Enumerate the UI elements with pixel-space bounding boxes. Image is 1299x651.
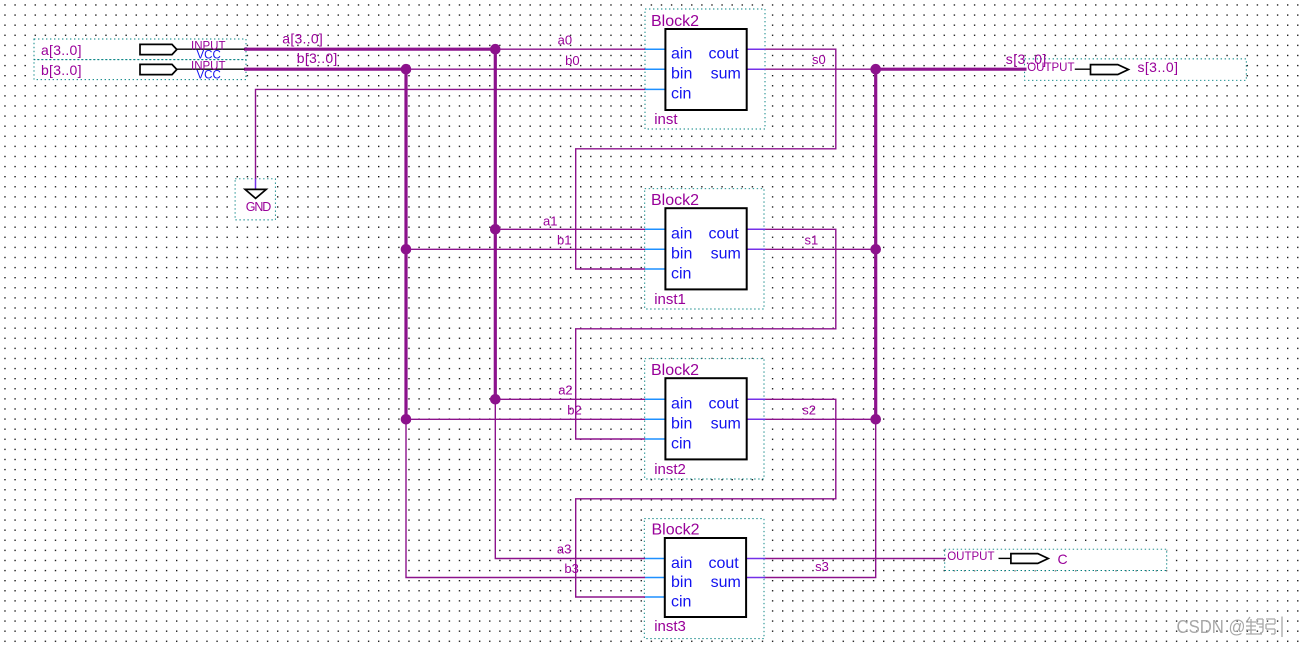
svg-text:ain: ain [671, 396, 692, 413]
svg-text:s0: s0 [812, 52, 826, 67]
svg-text:b2: b2 [567, 403, 581, 418]
svg-text:CSDN @: CSDN @ [1177, 617, 1246, 637]
svg-text:OUTPUT: OUTPUT [947, 551, 994, 563]
svg-text:b[3..0]: b[3..0] [41, 62, 82, 78]
svg-text:b3: b3 [564, 561, 578, 576]
svg-text:Block2: Block2 [651, 362, 699, 379]
svg-text:s1: s1 [805, 233, 819, 248]
svg-text:a3: a3 [557, 542, 571, 557]
svg-text:bin: bin [671, 416, 692, 433]
svg-text:cin: cin [671, 593, 691, 610]
svg-text:VCC: VCC [197, 70, 221, 82]
svg-text:Block2: Block2 [651, 192, 699, 209]
svg-text:cin: cin [671, 86, 691, 103]
svg-text:s2: s2 [802, 403, 816, 418]
svg-text:ain: ain [671, 226, 692, 243]
svg-text:Block2: Block2 [651, 13, 699, 30]
svg-text:a2: a2 [558, 383, 572, 398]
svg-text:cin: cin [671, 435, 691, 452]
svg-text:bin: bin [671, 66, 692, 83]
svg-text:Block2: Block2 [652, 521, 700, 538]
svg-text:bin: bin [671, 246, 692, 263]
svg-text:a[3..0]: a[3..0] [41, 42, 82, 58]
svg-text:inst1: inst1 [654, 291, 686, 308]
svg-text:ain: ain [671, 46, 692, 63]
svg-text:cin: cin [671, 265, 691, 282]
svg-text:inst: inst [654, 111, 678, 128]
svg-text:a0: a0 [558, 33, 572, 48]
svg-text:GND: GND [246, 200, 271, 214]
svg-text:ain: ain [671, 555, 692, 572]
svg-text:cout: cout [709, 555, 740, 572]
svg-text:bin: bin [671, 574, 692, 591]
svg-text:s[3..0]: s[3..0] [1138, 59, 1179, 75]
svg-text:b1: b1 [557, 233, 571, 248]
svg-text:a1: a1 [543, 214, 557, 229]
svg-text:b0: b0 [565, 53, 579, 68]
svg-text:inst2: inst2 [654, 461, 686, 478]
svg-text:a[3..0]: a[3..0] [282, 31, 323, 47]
svg-text:cout: cout [709, 46, 740, 63]
svg-text:VCC: VCC [197, 50, 221, 62]
svg-text:sum: sum [711, 246, 741, 263]
svg-text:sum: sum [711, 574, 741, 591]
svg-text:C: C [1058, 551, 1068, 567]
svg-text:OUTPUT: OUTPUT [1027, 62, 1074, 74]
svg-text:cout: cout [709, 226, 740, 243]
svg-text:cout: cout [709, 396, 740, 413]
svg-text:sum: sum [711, 66, 741, 83]
svg-text:inst3: inst3 [654, 618, 686, 635]
svg-text:b[3..0]: b[3..0] [297, 50, 338, 66]
svg-text:sum: sum [711, 416, 741, 433]
svg-text:s3: s3 [815, 559, 829, 574]
